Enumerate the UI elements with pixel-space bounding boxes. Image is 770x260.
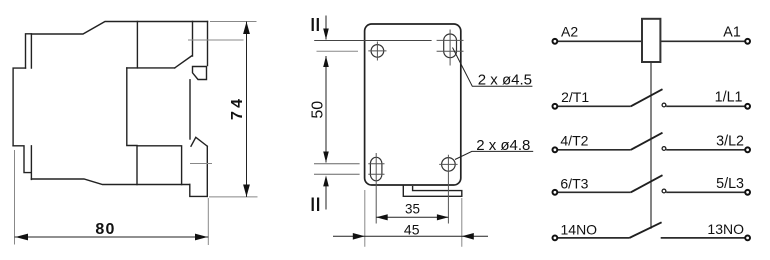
hole bottom-right centerlines <box>439 155 457 224</box>
dimension 74 line <box>246 22 248 197</box>
side view bottom edge with bevel <box>31 179 189 185</box>
wire A2 to coil <box>558 40 643 42</box>
front view body <box>365 24 461 185</box>
dimension 80 arrow left <box>15 234 28 241</box>
hole center line top-left extension <box>317 50 359 52</box>
svg-text:2/T1: 2/T1 <box>561 89 589 105</box>
svg-text:2 x ø4.5: 2 x ø4.5 <box>478 71 532 88</box>
side view inner vertical lower <box>127 68 137 146</box>
dimension 45 arrow right <box>462 233 474 240</box>
side view inner horizontal <box>127 67 175 69</box>
terminal 5/L3 <box>745 190 750 195</box>
fixed contact 1/L1 <box>662 103 666 107</box>
wire to 13NO <box>661 237 745 239</box>
contact blade 14NO <box>630 222 662 238</box>
svg-text:3/L2: 3/L2 <box>716 133 744 149</box>
side view right mid vertical <box>189 80 191 139</box>
side view right terminal hook <box>193 67 207 80</box>
dimension 74 arrow top <box>243 22 250 34</box>
side view light line upper right <box>188 39 244 41</box>
wire to 1/L1 <box>666 105 745 107</box>
dimension 50 arrow down <box>323 152 329 163</box>
section arrow bottom <box>325 186 327 210</box>
section mark II top <box>312 18 319 31</box>
svg-text:45: 45 <box>404 221 420 237</box>
section arrow top <box>325 16 327 40</box>
fixed contact 3/L2 <box>662 147 666 151</box>
dimension 45 arrow left <box>353 233 365 240</box>
wire to 3/L2 <box>666 149 745 151</box>
side view inner diagonal <box>175 22 193 68</box>
svg-text:4/T2: 4/T2 <box>560 133 588 149</box>
hole top-left crosshair <box>368 42 386 61</box>
dimension 35 line <box>376 216 448 218</box>
contact blade 4/T2 <box>631 133 663 150</box>
side view inner bottom rectangle <box>137 146 182 185</box>
side view inner vertical upper <box>136 22 138 68</box>
fixed contact 5/L3 <box>662 189 666 193</box>
side view right edge upper tab <box>207 22 209 66</box>
dimension 74 arrow bottom <box>243 185 250 197</box>
dimension 35 extension lines <box>365 190 462 247</box>
side view light line lower right <box>190 163 212 165</box>
section line top <box>314 40 431 42</box>
svg-text:13NO: 13NO <box>707 221 744 237</box>
terminal 2/T1 <box>553 104 558 109</box>
dimension 74 extension line bottom <box>209 196 258 198</box>
terminal A2 <box>553 39 558 44</box>
svg-text:1/L1: 1/L1 <box>715 90 743 106</box>
side view outline top-left edge <box>32 22 208 35</box>
hole bottom-left slot <box>370 157 382 181</box>
side view right lower edge <box>206 146 208 196</box>
section mark II bottom <box>312 198 320 212</box>
wire to 5/L3 <box>666 191 745 193</box>
svg-text:80: 80 <box>95 221 114 238</box>
svg-text:14NO: 14NO <box>561 222 598 238</box>
dimension 35 arrow right <box>437 214 449 220</box>
terminal 1/L1 <box>745 104 750 109</box>
terminal 4/T2 <box>553 147 558 152</box>
dimension 80 extension line left <box>14 150 16 245</box>
linkage line <box>650 62 652 229</box>
svg-text:A1: A1 <box>723 24 741 40</box>
dimension 80 line <box>15 236 209 238</box>
coil A1-A2 <box>642 19 660 62</box>
terminal 14NO <box>553 236 558 241</box>
hole center lines bottom-left extension <box>314 164 360 175</box>
dimension 35 arrow left <box>376 214 388 220</box>
svg-text:50: 50 <box>310 101 327 119</box>
svg-text:6/T3: 6/T3 <box>560 175 588 191</box>
terminal 13NO <box>745 236 750 241</box>
leader line 4.8 <box>455 151 533 159</box>
hole top-right slot <box>444 34 457 58</box>
wire 14NO <box>558 237 630 239</box>
hole bottom-right circle <box>442 158 456 172</box>
side view right notch chevron <box>191 137 207 146</box>
wire 2/T1 <box>558 105 631 107</box>
dimension 50 arrow up <box>323 56 329 67</box>
wire coil to A1 <box>660 40 745 42</box>
side view top-left mounting tab <box>26 34 32 68</box>
dimension 50 line <box>325 56 327 163</box>
contact blade 2/T1 <box>631 89 663 106</box>
terminal A1 <box>745 39 750 44</box>
dimension 80 extension line right <box>207 198 209 245</box>
svg-text:2 x ø4.8: 2 x ø4.8 <box>476 137 530 154</box>
terminal 3/L2 <box>745 147 750 152</box>
side view bottom-right foot <box>190 185 208 197</box>
wire 6/T3 <box>558 191 631 193</box>
hole top-left circle <box>371 45 384 58</box>
hole bottom-left centerlines <box>368 153 384 224</box>
svg-text:35: 35 <box>405 202 420 217</box>
front view bottom foot <box>403 186 462 197</box>
dimension 45 line <box>333 235 488 237</box>
dimension 80 arrow right <box>195 234 208 241</box>
hole top-right centerlines <box>437 30 464 66</box>
side view lower-left clip tab <box>13 146 31 180</box>
svg-text:A2: A2 <box>561 23 578 39</box>
svg-text:5/L3: 5/L3 <box>716 176 744 192</box>
wire 4/T2 <box>558 149 631 151</box>
side view left step and left edge <box>13 68 25 146</box>
terminal 6/T3 <box>553 190 558 195</box>
contact blade 6/T3 <box>631 175 663 192</box>
dimension 74 extension line top <box>210 21 257 23</box>
leader line 4.5 <box>453 48 533 87</box>
